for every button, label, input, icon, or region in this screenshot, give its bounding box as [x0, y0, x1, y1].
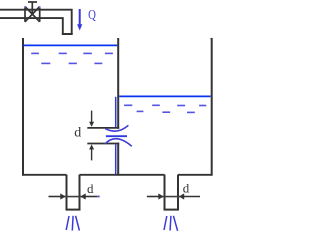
tank divider wall lower section: [117, 143, 119, 176]
tank 2 water surface line: [119, 95, 210, 97]
tank 2 water dashes row 2: [137, 111, 195, 112]
pipe outlet end cap: [62, 33, 73, 35]
valve V1 stem: [31, 2, 33, 14]
spout 2 bottom edge: [164, 209, 180, 211]
spout 1 left wall: [66, 175, 68, 211]
spout 2 dimension left arrow: [147, 193, 180, 199]
orifice jet center line: [106, 135, 127, 137]
orifice dimension lower arrow: [89, 144, 94, 160]
valve V1 right seat bar: [39, 7, 41, 22]
orifice jet upper curve: [105, 125, 128, 131]
tank 1 water dashes row 2: [41, 62, 102, 64]
valve V1 body diagonal 1: [25, 7, 40, 22]
spout 2 jet line left: [164, 216, 167, 230]
spout 1 right wall: [79, 175, 81, 211]
svg-text:Q: Q: [88, 7, 96, 22]
tank 2 water dashes row 1: [124, 104, 206, 106]
orifice jet lower curve: [105, 139, 132, 147]
tank bottom left segment: [22, 174, 67, 176]
valve V1 handle T-bar: [28, 1, 37, 3]
tank 2 right wall: [211, 38, 213, 176]
spout 1 dimension left arrow: [49, 193, 83, 199]
inlet pipe top line with elbow: [0, 10, 72, 34]
stray blue tick at end of spout 1 dimension line: [98, 196, 100, 198]
spout 2 dimension right arrow: [179, 193, 200, 199]
tank bottom middle segment: [80, 174, 165, 176]
spout 2 right wall: [177, 175, 179, 211]
spout 1 jet line middle: [71, 216, 74, 231]
streamline along divider above orifice: [115, 97, 117, 127]
orifice upper lip stub: [87, 127, 119, 129]
valve V1 body diagonal 2: [25, 7, 40, 22]
tank 1 water surface line: [23, 44, 117, 46]
svg-text:d: d: [183, 181, 190, 196]
spout 1 bottom edge: [66, 209, 81, 211]
spout 1 jet line left: [66, 216, 69, 230]
blue speck on valve right bar top: [39, 6, 41, 8]
tank divider wall upper section: [117, 38, 119, 129]
blue speck on right wall top: [210, 38, 212, 40]
orifice lower lip stub: [87, 143, 119, 145]
spout 2 jet line middle: [169, 216, 172, 231]
svg-text:d: d: [74, 126, 81, 141]
spout 2 jet line right: [173, 216, 177, 231]
spout 1 dimension right arrow: [80, 193, 97, 199]
tank 1 water dashes row 1: [31, 52, 113, 54]
orifice dimension upper arrow: [89, 111, 94, 127]
flow arrow Q: [77, 9, 82, 31]
spout 1 jet line right: [76, 216, 80, 231]
tank bottom right segment: [178, 174, 213, 176]
streamline along divider below orifice: [115, 144, 117, 174]
blue speck on valve left bar top: [24, 6, 26, 8]
valve V1 left seat bar: [24, 7, 26, 22]
svg-text:d: d: [87, 181, 94, 196]
spout 2 left wall: [164, 175, 166, 211]
inlet pipe bottom line with elbow: [0, 18, 63, 34]
tank 1 left wall: [22, 38, 24, 176]
